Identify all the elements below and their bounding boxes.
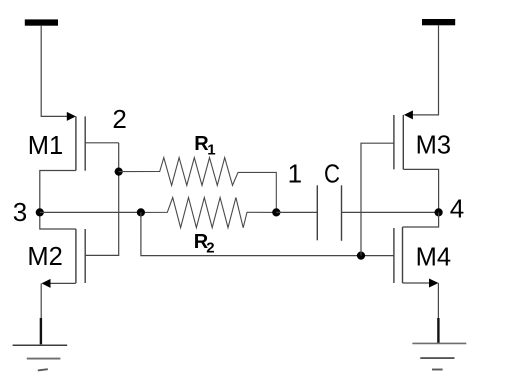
arrow M4 source [429,279,439,288]
wire R2-left down and bottom rail to M4 gate [141,212,394,255]
wire junction up to M3 gate [361,143,394,255]
transistor M4 channel bar [402,227,404,283]
ground left line 2 [27,358,61,360]
node 4 junction dot [435,208,443,216]
transistor M2 channel bar [75,229,77,283]
VDD bar left [25,19,58,25]
transistor M1 channel bar [75,116,77,170]
transistor M3 channel bar [402,115,404,169]
node 1 junction dot [272,208,280,216]
wire M1 drain to node 3 [40,171,76,213]
ground right line 3 [432,369,443,371]
wire M2 source lead [50,282,76,284]
wire M4 source down to ground [437,283,439,343]
wire node1 to capacitor [276,211,317,213]
arrow into M3 source [404,110,413,119]
transistor M2 gate bar [84,229,86,283]
arrow into M1 source [67,112,76,121]
ground left stub [40,318,42,344]
wire VDD-right down to M3 source lead [412,25,439,115]
wire M3 drain to node 4 [403,169,438,212]
svg-text:M4: M4 [416,243,451,271]
svg-text:1: 1 [288,158,302,188]
VDD bar right [422,19,455,25]
wire node3 to M2 drain [40,212,76,229]
transistor M3 gate bar [393,115,395,169]
wire capacitor to node 4 [342,211,439,213]
capacitor C left plate [316,185,318,240]
junction dot bottom rail [357,252,365,260]
arrow M2 source [42,279,51,288]
ground right line 2 [420,357,454,359]
junction dot R2 left [137,208,145,216]
wire M4 source lead [403,282,430,284]
wire node3 row to R2 [40,211,141,213]
resistor R2 [141,198,276,228]
node 2 junction dot [115,168,123,176]
svg-text:1: 1 [207,141,215,158]
ground right line 1 [412,342,466,344]
svg-text:M2: M2 [27,243,62,271]
wire VDD-left down to M1 source lead [41,26,67,117]
wire node2 vertical to M2 gate [85,143,119,256]
ground left line 3 [38,369,48,370]
svg-text:3: 3 [13,197,27,227]
svg-text:2: 2 [206,239,214,256]
wire M2 source down to ground [40,283,42,344]
wire node4 to M4 drain [403,212,439,227]
ground right stub [437,318,439,343]
capacitor C right plate [341,185,343,241]
transistor M1 gate bar [84,116,86,170]
ground left line 1 [13,344,68,346]
svg-text:C: C [324,161,340,189]
resistor R1 [119,158,277,213]
svg-text:M3: M3 [416,131,451,159]
node 3 junction dot [36,208,44,216]
svg-text:M1: M1 [28,132,63,160]
svg-text:2: 2 [112,104,126,134]
svg-text:4: 4 [450,194,464,224]
wire M1 gate lead [85,142,119,144]
transistor M4 gate bar [393,228,395,283]
